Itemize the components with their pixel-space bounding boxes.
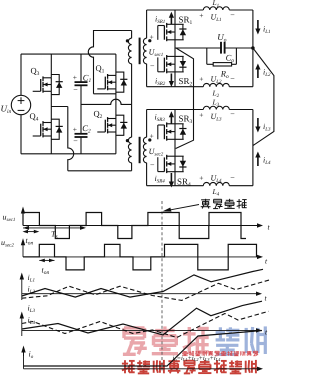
svg-text:+: + bbox=[150, 32, 154, 41]
rectifier SR3 bbox=[174, 110, 176, 124]
wire sec2 top rail bbox=[147, 109, 204, 111]
wire Q1 source to transformer1 top bbox=[94, 93, 116, 95]
transformer T1 primary bbox=[131, 31, 133, 39]
node A wire: Q3/Q4 midpoint to transformer2 bbox=[51, 106, 68, 108]
transformer T1 core bbox=[139, 38, 141, 65]
rectifier SR2 bbox=[166, 55, 168, 60]
wire top rail bbox=[21, 53, 116, 55]
current arrow iL2 bbox=[257, 68, 259, 79]
transformer T1 secondary Usec1 bbox=[146, 10, 148, 38]
waveform trace usec2 bbox=[23, 244, 257, 270]
watermark small red strip bbox=[184, 351, 186, 353]
dashed load-step line bbox=[161, 201, 163, 372]
current arrow iSR2 bbox=[170, 74, 172, 84]
transformer T2 secondary Usec2 bbox=[146, 110, 148, 138]
svg-text:+: + bbox=[73, 125, 77, 134]
transistor Q3 bbox=[50, 54, 52, 78]
svg-text:−: − bbox=[73, 137, 78, 146]
waveform axis usec2 bbox=[23, 256, 259, 258]
waveform trace iL3 bbox=[22, 301, 262, 335]
waveform axis usec1 bbox=[23, 225, 259, 227]
waveform trace iL1 bbox=[22, 269, 263, 297]
waveform axis iL1 iL2 bbox=[22, 293, 258, 295]
waveform axis iL3 iL4 bbox=[22, 329, 258, 331]
annotation ton bottom bbox=[39, 259, 54, 261]
svg-text:+: + bbox=[73, 73, 77, 82]
inductor L2 bbox=[203, 83, 229, 86]
annotation load step 负载突升 bbox=[168, 205, 199, 211]
transistor Q2 bbox=[115, 89, 117, 119]
svg-text:+: + bbox=[199, 173, 203, 182]
wire bottom rail bbox=[21, 153, 116, 155]
capacitor Co bbox=[220, 42, 222, 54]
wire sec1 top rail bbox=[147, 9, 204, 11]
inductor L3 bbox=[203, 106, 229, 109]
current arrow iSR1 bbox=[170, 16, 172, 24]
svg-text:−: − bbox=[150, 62, 155, 71]
current arrow iL3 bbox=[257, 118, 259, 129]
annotation ton top bbox=[26, 231, 37, 233]
annotation Ts bbox=[23, 227, 81, 229]
current arrow iL1 bbox=[257, 20, 259, 31]
wire right rail upper bbox=[252, 10, 254, 87]
transistor Q4 bbox=[50, 91, 52, 122]
svg-text:+: + bbox=[150, 131, 154, 140]
svg-text:−: − bbox=[230, 74, 235, 83]
waveform trace iL4 dashed bbox=[22, 311, 269, 337]
svg-text:+: + bbox=[199, 11, 203, 20]
transformer T2 primary bbox=[131, 104, 133, 137]
current arrow iL4 bbox=[257, 156, 259, 167]
current arrow iSR3 bbox=[170, 115, 172, 124]
watermark red slogan bbox=[124, 360, 126, 373]
svg-text:−: − bbox=[230, 110, 235, 119]
source Uin bbox=[20, 54, 22, 95]
node B wire: cap midpoint to transformer midpoint bbox=[81, 99, 132, 104]
svg-text:−: − bbox=[150, 161, 155, 170]
svg-text:+: + bbox=[199, 74, 203, 83]
svg-text:−: − bbox=[230, 173, 235, 182]
capacitor C1 bbox=[80, 54, 82, 82]
wire sec1 bottom rail bbox=[147, 86, 204, 88]
transformer T2 core bbox=[139, 137, 141, 163]
transistor Q1 bbox=[115, 54, 117, 75]
rectifier SR1 bbox=[174, 10, 176, 24]
wire mid to output cap bbox=[175, 47, 221, 49]
waveform axis io bbox=[24, 368, 260, 370]
inductor L1 bbox=[202, 9, 204, 11]
node output junction bbox=[251, 46, 255, 50]
wire bypass bbox=[253, 48, 274, 146]
waveform trace usec1 bbox=[23, 213, 179, 239]
svg-text:−: − bbox=[230, 10, 235, 19]
rectifier SR4 bbox=[166, 155, 168, 160]
inductor L4 bbox=[203, 182, 229, 185]
resistor Ro bbox=[206, 48, 208, 64]
wire sec2 bottom rail bbox=[147, 185, 204, 187]
svg-text:−: − bbox=[73, 85, 78, 94]
wire right rail lower bbox=[252, 110, 254, 186]
capacitor C2 bbox=[75, 133, 88, 135]
waveform trace iL2 dashed bbox=[22, 280, 270, 301]
current arrow iSR4 bbox=[170, 173, 172, 184]
svg-text:+: + bbox=[199, 111, 203, 120]
watermark logo text bbox=[124, 326, 145, 329]
wire rectifier common bus bbox=[176, 48, 194, 149]
waveform trace io bbox=[24, 331, 263, 367]
